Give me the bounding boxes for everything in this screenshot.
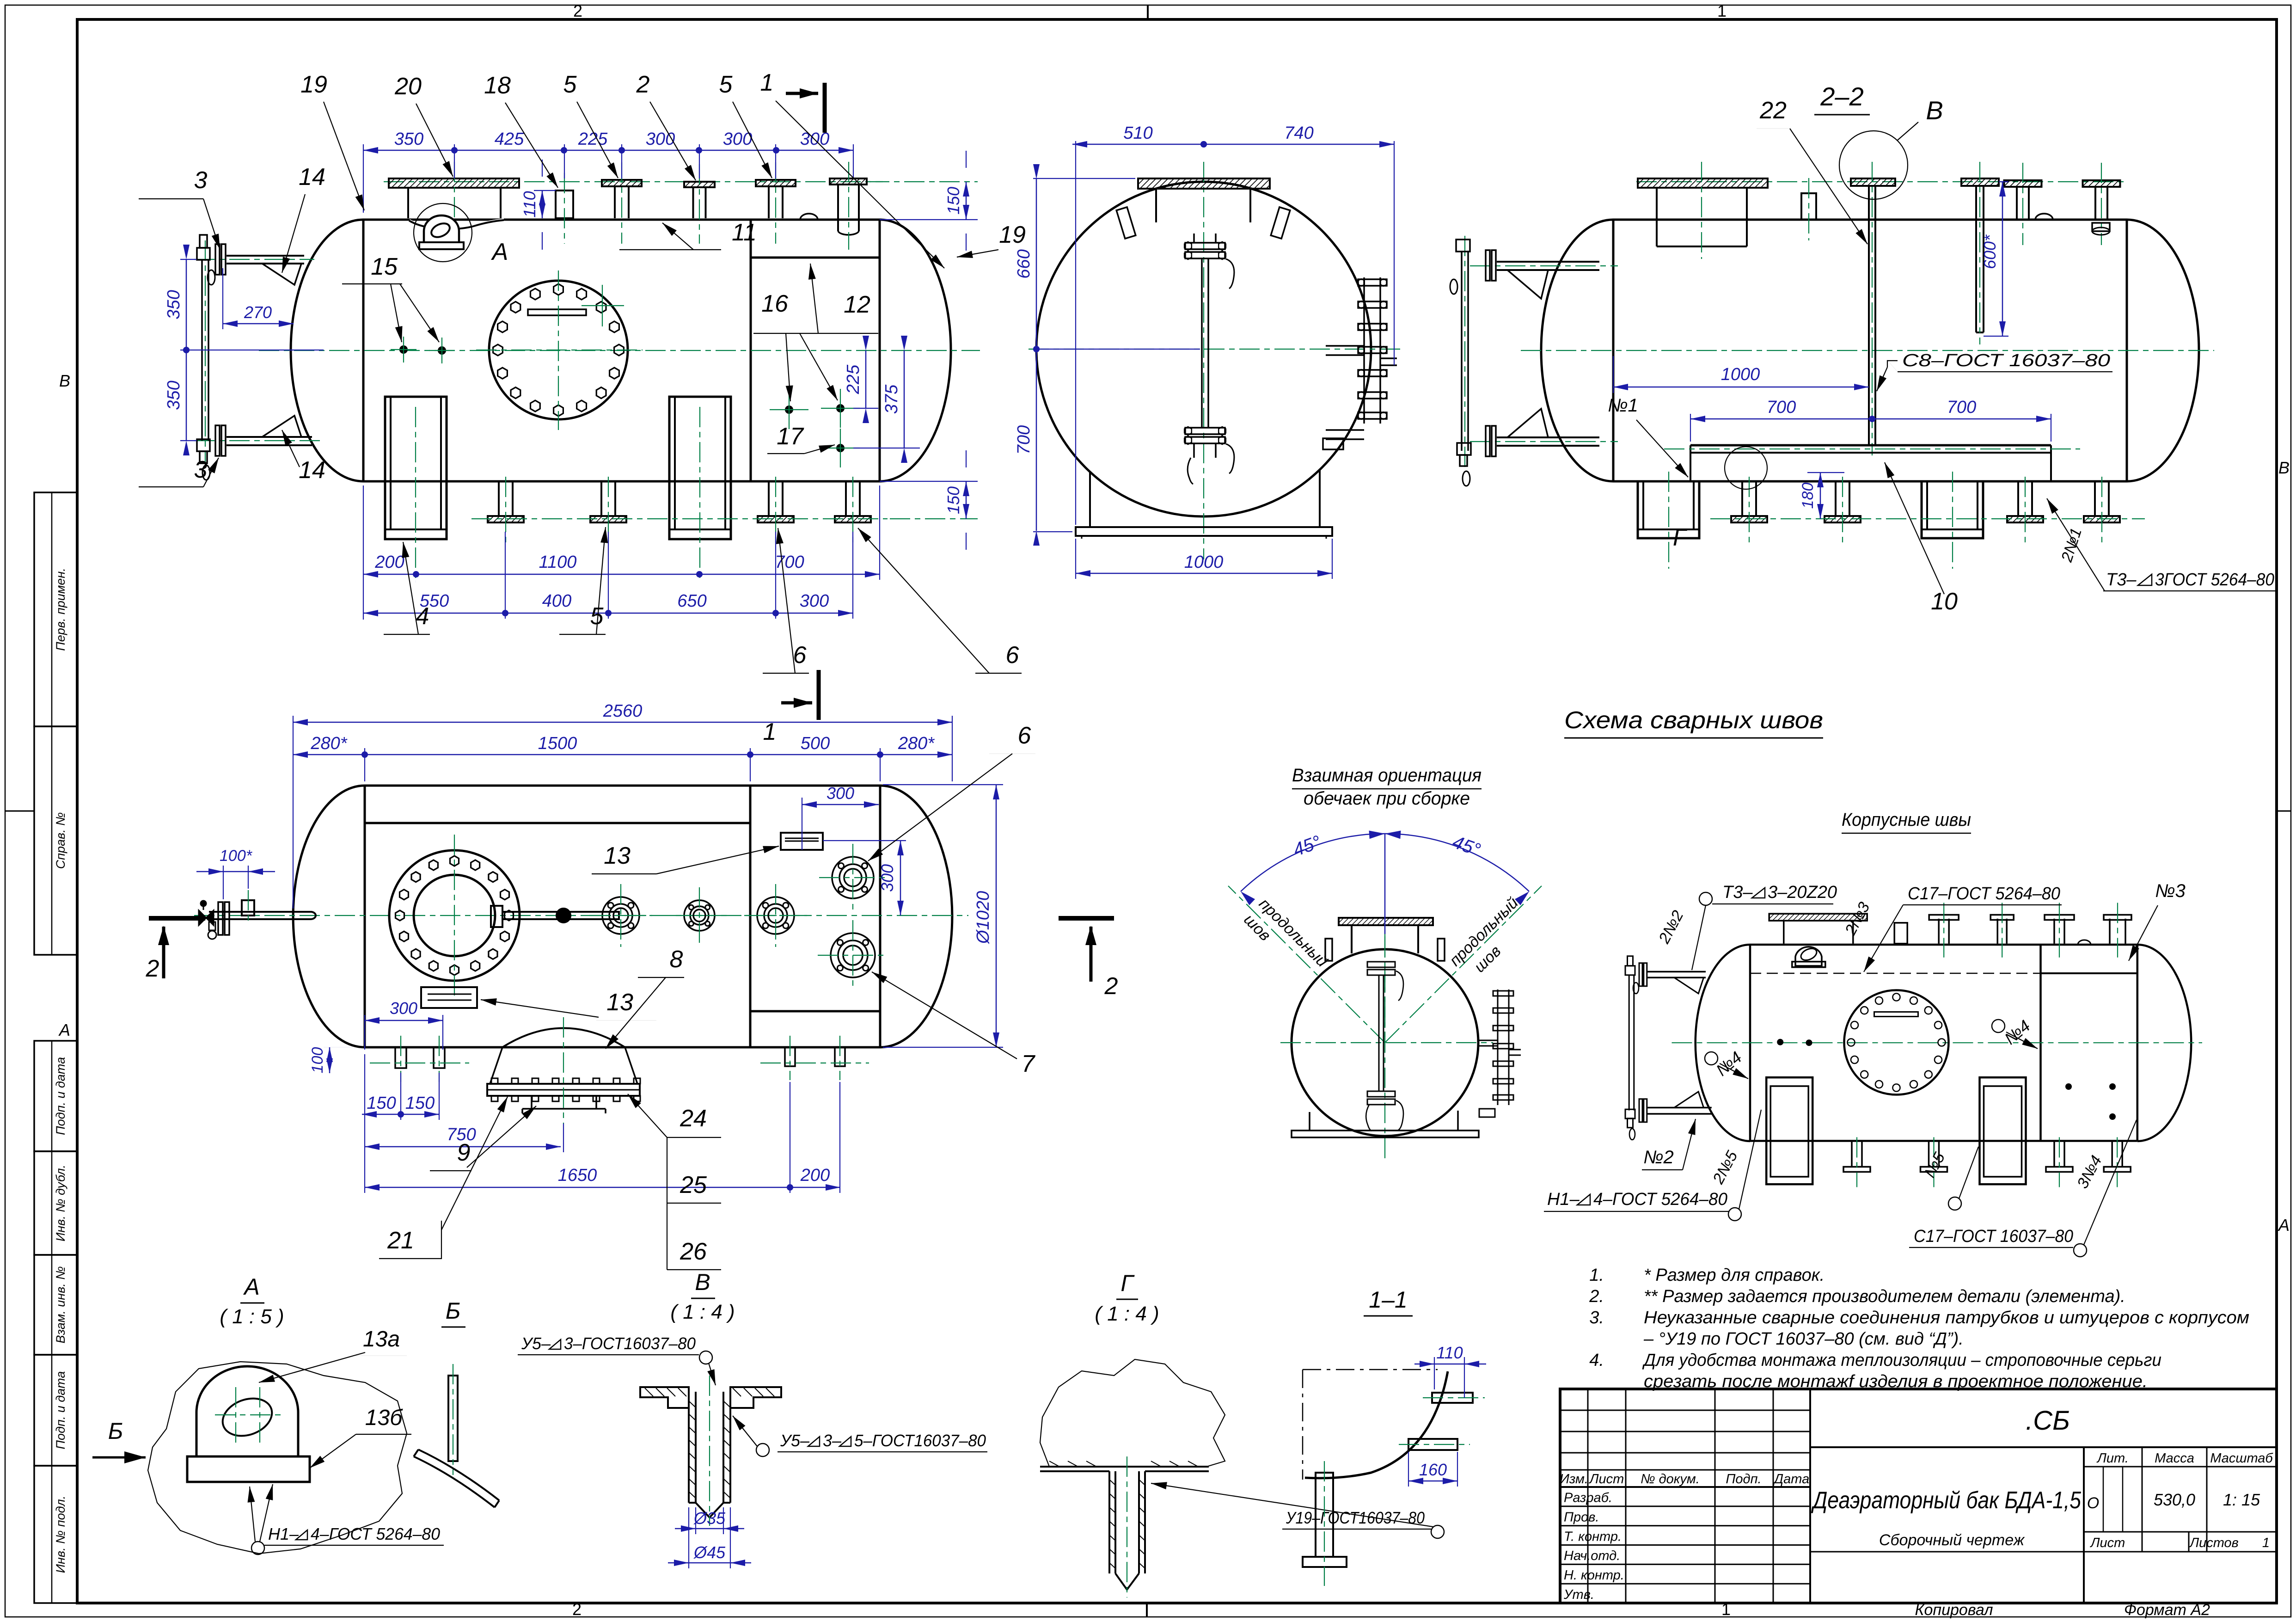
dim 2560	[293, 716, 294, 909]
bottom stubs right pair	[785, 1047, 795, 1066]
svg-text:3.: 3.	[1589, 1308, 1604, 1327]
gussets 2-2	[1507, 270, 1548, 299]
svg-text:Т3–: Т3–	[2106, 570, 2137, 590]
central pipe	[1201, 258, 1203, 428]
detail 1-1 pipe with flange	[1316, 1473, 1333, 1557]
dim chain bottom row1 200 1100 700	[363, 485, 364, 620]
svg-text:1000: 1000	[1184, 553, 1224, 572]
svg-text:14: 14	[299, 457, 325, 484]
legs 2-2	[1638, 481, 1699, 538]
dim 150 bottom right	[880, 481, 978, 482]
scheme right compartment dots	[2065, 1083, 2072, 1090]
svg-text:24: 24	[680, 1105, 707, 1132]
saddle bracket	[531, 1096, 533, 1109]
dim chain bottom row2 550 400 650 300	[363, 613, 853, 614]
title block	[1560, 1389, 2277, 1603]
dim D1020	[883, 784, 1003, 785]
svg-text:Листов: Листов	[2189, 1536, 2239, 1550]
scheme bottom nozzles	[1851, 1141, 1853, 1167]
dim 150 150	[400, 1073, 401, 1120]
dims 350 350 left	[180, 259, 196, 260]
svg-text:1000: 1000	[1721, 365, 1760, 384]
svg-text:2.: 2.	[1589, 1287, 1604, 1306]
svg-text:2: 2	[573, 1, 582, 20]
left valve item 3 plan	[209, 911, 311, 913]
flange 2 plan	[684, 900, 715, 931]
svg-text:3–: 3–	[823, 1431, 842, 1450]
flanged nozzle 2-2 a	[2004, 180, 2042, 187]
shell body plan	[365, 785, 880, 787]
svg-text:3: 3	[194, 167, 208, 194]
svg-text:6: 6	[1006, 642, 1019, 669]
detail V dims	[695, 1507, 696, 1534]
svg-text:С8–ГОСТ 16037–80: С8–ГОСТ 16037–80	[1902, 351, 2110, 370]
svg-text:У19–ГОСТ16037–80: У19–ГОСТ16037–80	[1286, 1508, 1425, 1527]
svg-text:13: 13	[604, 842, 631, 869]
internal line right section	[750, 1010, 880, 1013]
scheme manhole	[1844, 990, 1949, 1095]
main axis centerline	[259, 350, 980, 351]
svg-text:* Размер для справок.: * Размер для справок.	[1644, 1266, 1825, 1285]
detail G pipe	[1108, 1471, 1110, 1573]
shell body	[363, 219, 880, 221]
svg-text:Взам. инв. №: Взам. инв. №	[54, 1266, 67, 1344]
svg-text:13б: 13б	[365, 1406, 403, 1430]
bottom nozzles	[498, 481, 500, 516]
svg-text:6: 6	[793, 642, 807, 669]
left attribute column	[34, 492, 77, 726]
svg-text:300: 300	[390, 999, 417, 1018]
dim 180	[1820, 473, 1821, 519]
level gauge assembly left	[227, 255, 304, 257]
svg-text:В: В	[695, 1269, 710, 1295]
svg-text:150: 150	[405, 1094, 435, 1113]
svg-text:( 1 : 5 ): ( 1 : 5 )	[220, 1305, 284, 1328]
svg-text:1.: 1.	[1589, 1266, 1604, 1285]
section mark 1-1 bottom	[817, 670, 821, 720]
svg-text:110: 110	[520, 191, 539, 217]
svg-text:( 1 : 4 ): ( 1 : 4 )	[1095, 1303, 1159, 1325]
svg-text:Подп. и дата: Подп. и дата	[54, 1057, 67, 1135]
dim 110 detail	[1434, 1357, 1435, 1389]
svg-text:2: 2	[572, 1600, 582, 1619]
hole near slot	[582, 305, 624, 306]
svg-text:2560: 2560	[603, 701, 643, 721]
stub pipes to bank	[1326, 345, 1364, 347]
svg-text:100: 100	[309, 1047, 326, 1074]
svg-text:700: 700	[775, 553, 804, 572]
gusset upper	[262, 264, 301, 285]
dims 700 700	[1690, 414, 1691, 442]
svg-text:Лит.: Лит.	[2096, 1451, 2129, 1466]
compartment divider (seam)	[750, 220, 752, 481]
svg-text:С17–ГОСТ 16037–80: С17–ГОСТ 16037–80	[1914, 1227, 2073, 1246]
svg-text:21: 21	[387, 1227, 414, 1254]
bottom stubs left pair	[395, 1047, 406, 1068]
svg-text:20: 20	[394, 73, 422, 100]
svg-text:1100: 1100	[539, 553, 577, 572]
scheme nozzles top	[1894, 923, 1907, 944]
dim 600*	[1984, 182, 2008, 186]
svg-text:4–ГОСТ 5264–80: 4–ГОСТ 5264–80	[311, 1524, 440, 1543]
svg-text:160: 160	[1419, 1460, 1447, 1479]
svg-text:4: 4	[416, 603, 429, 630]
svg-text:Г: Г	[1120, 1270, 1135, 1296]
flange 5a plan	[602, 897, 639, 934]
svg-text:В: В	[2278, 458, 2290, 477]
svg-text:150: 150	[944, 187, 963, 215]
svg-text:№ докум.: № докум.	[1641, 1472, 1700, 1487]
svg-text:Подп. и дата: Подп. и дата	[54, 1371, 67, 1449]
svg-text:№3: №3	[2155, 881, 2186, 901]
svg-text:№1: №1	[1608, 395, 1638, 416]
svg-text:13а: 13а	[363, 1327, 400, 1352]
flange 7 plan	[831, 933, 875, 977]
svg-text:7: 7	[1022, 1051, 1036, 1077]
detail B shell arc	[414, 1456, 495, 1507]
gusset lower	[262, 416, 301, 437]
vent bump	[800, 214, 818, 220]
svg-text:Т. контр.: Т. контр.	[1564, 1529, 1622, 1544]
svg-text:В: В	[1926, 96, 1943, 125]
nozzle 1 (C8 pipe)	[830, 178, 867, 184]
central pipe orientation	[1367, 962, 1395, 967]
bottom nozzles 2-2	[1741, 481, 1743, 516]
nozzle 5b	[756, 180, 796, 186]
nozzle 20 flange (manhole cover)	[389, 178, 519, 188]
dim 300 vertical right	[823, 840, 906, 841]
svg-text:№2: №2	[1643, 1147, 1674, 1167]
svg-text:Неуказанные сварные соединения: Неуказанные сварные соединения патрубков…	[1644, 1308, 2249, 1327]
svg-text:5: 5	[719, 71, 733, 98]
bottom saddle item 8	[502, 1028, 625, 1048]
right flange bank	[1363, 277, 1365, 424]
svg-text:Н. контр.: Н. контр.	[1564, 1568, 1624, 1583]
svg-text:А: А	[58, 1020, 70, 1039]
svg-text:Корпусные швы: Корпусные швы	[1842, 810, 1971, 830]
section 2 mark left	[149, 916, 205, 921]
detail B plate	[448, 1376, 458, 1461]
svg-text:400: 400	[542, 591, 571, 611]
detail G cloud	[1040, 1359, 1225, 1467]
svg-text:( 1 : 4 ): ( 1 : 4 )	[670, 1301, 735, 1323]
top flange orientation view	[1339, 918, 1433, 925]
detail A lug	[196, 1366, 298, 1456]
flanged nozzle 2-2 b	[2083, 180, 2120, 187]
svg-text:Н1–: Н1–	[1547, 1190, 1580, 1209]
svg-text:Нач.отд.: Нач.отд.	[1564, 1548, 1620, 1563]
callout B circle	[1839, 131, 1908, 199]
nozzle 18 stub	[556, 190, 573, 218]
svg-text:100*: 100*	[220, 847, 253, 865]
VIEW 2: end elevation (circle)	[1036, 182, 1371, 516]
weld label T3-3-20Z20	[1699, 892, 1712, 905]
svg-text:Ø1020: Ø1020	[974, 891, 993, 945]
scheme legs	[1766, 1077, 1812, 1184]
svg-text:19: 19	[999, 221, 1026, 248]
dim 100*	[223, 866, 224, 899]
svg-text:3: 3	[194, 456, 208, 483]
svg-text:150: 150	[944, 486, 963, 514]
pipe 22 with flange	[1851, 178, 1895, 186]
label U5-3-5 GOST	[756, 1444, 769, 1456]
svg-text:150: 150	[367, 1094, 396, 1113]
right head plan	[880, 786, 952, 1047]
item 13 lug right	[781, 833, 823, 850]
svg-text:180: 180	[1799, 483, 1817, 509]
diagonal centerlines 45	[1384, 936, 1385, 1043]
svg-text:225: 225	[844, 364, 863, 394]
scheme big flange and eye	[1769, 914, 1867, 921]
svg-text:А: А	[243, 1274, 259, 1300]
weld labels N4	[1705, 1052, 1718, 1065]
svg-text:Лист: Лист	[2090, 1536, 2125, 1550]
detail A arrow B	[92, 1456, 146, 1459]
scheme seam divider	[2039, 945, 2042, 1141]
svg-text:3–ГОСТ16037–80: 3–ГОСТ16037–80	[564, 1334, 696, 1353]
svg-text:510: 510	[1123, 123, 1152, 143]
svg-text:Перв. примен.: Перв. примен.	[54, 568, 67, 651]
lifting eye (detail A callout)	[424, 215, 459, 248]
dim 160 detail	[1408, 1452, 1409, 1487]
svg-text:Ø45: Ø45	[693, 1543, 726, 1562]
scheme tank shell	[1750, 944, 2137, 946]
svg-text:425: 425	[495, 129, 524, 149]
svg-text:700: 700	[1947, 398, 1976, 417]
safety device bottom	[1185, 428, 1225, 434]
section mark 1-1 top	[823, 83, 827, 133]
flange 5b plan	[757, 897, 794, 934]
svg-text:225: 225	[578, 129, 608, 149]
right bank orientation	[1497, 989, 1499, 1105]
svg-text:Г: Г	[1673, 524, 1688, 551]
svg-text:4–ГОСТ 5264–80: 4–ГОСТ 5264–80	[1593, 1190, 1727, 1209]
top flange	[1138, 178, 1270, 189]
top elevation centerline	[384, 181, 883, 182]
detail 1-1 nozzle stubs	[1432, 1393, 1473, 1403]
svg-text:350: 350	[164, 381, 184, 410]
svg-text:2–2: 2–2	[1820, 82, 1863, 111]
detail V pipe	[688, 1387, 690, 1503]
dim 660 700	[1033, 178, 1135, 179]
manhole plan (item 20)	[389, 850, 520, 981]
item 13 lug left	[421, 987, 477, 1008]
support stand	[1089, 472, 1091, 527]
scheme holes	[1777, 1039, 1783, 1045]
svg-text:15: 15	[371, 253, 398, 280]
svg-text:110: 110	[1436, 1343, 1463, 1362]
svg-text:обечаек при сборке: обечаек при сборке	[1304, 788, 1470, 809]
svg-text:200: 200	[800, 1166, 830, 1185]
svg-text:1650: 1650	[558, 1166, 597, 1185]
svg-text:Схема сварных швов: Схема сварных швов	[1564, 707, 1823, 734]
circle Г callout	[1725, 447, 1767, 489]
scheme longitudinal seam dashed	[1750, 973, 2041, 974]
holes items 16 17	[785, 405, 793, 414]
svg-text:Сборочный чертеж: Сборочный чертеж	[1879, 1531, 2025, 1549]
svg-text:Т3–: Т3–	[1722, 883, 1753, 902]
svg-text:9: 9	[457, 1139, 471, 1166]
svg-text:Ø35: Ø35	[693, 1509, 726, 1528]
dim 280 1500 500 280	[364, 748, 365, 781]
dim 1650 200	[790, 1082, 790, 1193]
svg-text:С17–ГОСТ 5264–80: С17–ГОСТ 5264–80	[1908, 884, 2060, 903]
nozzle 2	[684, 182, 715, 187]
svg-text:** Размер задается производит: ** Размер задается производителем детали…	[1644, 1287, 2125, 1306]
dim 300 top right	[802, 798, 802, 850]
svg-text:Лист: Лист	[1589, 1472, 1624, 1487]
svg-text:12: 12	[844, 291, 870, 318]
holes item 15	[399, 345, 408, 354]
svg-text:2: 2	[636, 71, 650, 98]
svg-text:Масса: Масса	[2155, 1451, 2194, 1466]
overflow nozzle 600*	[1961, 178, 1999, 186]
small hole on axis	[557, 909, 570, 922]
svg-text:740: 740	[1284, 123, 1313, 143]
dim 1000 2-2	[1613, 356, 1614, 393]
flange 6 plan	[832, 857, 874, 898]
right elliptical head	[880, 220, 951, 481]
svg-text:8: 8	[670, 946, 683, 973]
svg-text:В: В	[59, 371, 70, 390]
svg-text:1: 1	[760, 69, 774, 96]
scheme tank right head	[2137, 945, 2191, 1141]
level gauge assembly 2-2	[1497, 261, 1599, 263]
weld label N5	[1948, 1197, 1961, 1210]
bottom right stub	[1323, 438, 1343, 449]
left head plan	[293, 786, 365, 1047]
dim 750	[563, 1124, 564, 1152]
svg-text:1: 1	[1717, 1, 1727, 20]
scheme gauge bracket	[1647, 971, 1706, 973]
svg-text:19: 19	[300, 71, 327, 98]
support leg 2	[669, 397, 731, 539]
svg-text:– °У19 по ГОСТ 16037–80 (см.: – °У19 по ГОСТ 16037–80 (см. вид “Д”).	[1643, 1329, 1964, 1349]
stand orientation	[1309, 1112, 1310, 1130]
svg-text:530,0: 530,0	[2154, 1490, 2195, 1509]
svg-text:700: 700	[1767, 398, 1796, 417]
svg-text:300: 300	[827, 784, 854, 803]
svg-text:200: 200	[374, 553, 404, 572]
safety device top (flanged pair)	[1185, 243, 1225, 249]
svg-text:Утв.: Утв.	[1563, 1587, 1594, 1602]
svg-text:11: 11	[732, 219, 757, 246]
shell dip under eye	[409, 220, 504, 229]
stub box plan	[242, 900, 254, 915]
svg-text:2: 2	[146, 955, 159, 982]
svg-text:660: 660	[1014, 249, 1034, 278]
svg-text:270: 270	[244, 303, 272, 322]
svg-text:300: 300	[646, 129, 675, 149]
svg-text:Подп.: Подп.	[1726, 1472, 1761, 1487]
svg-text:.СБ: .СБ	[2026, 1406, 2070, 1436]
dim 110	[534, 190, 556, 191]
svg-text:350: 350	[394, 129, 423, 149]
tray item 10	[1690, 444, 2051, 447]
svg-text:Изм.: Изм.	[1560, 1472, 1588, 1487]
support leg 1	[385, 397, 447, 539]
manhole with bolts	[489, 281, 628, 419]
side stubs top	[1116, 207, 1136, 239]
dims 225 375	[853, 408, 878, 409]
compartment internal shelf	[751, 257, 880, 259]
shell body 2-2	[1613, 219, 2127, 221]
svg-text:1–1: 1–1	[1369, 1287, 1407, 1313]
svg-text:16: 16	[761, 290, 788, 317]
svg-text:25: 25	[680, 1172, 707, 1198]
svg-text:2: 2	[1104, 973, 1118, 1000]
svg-text:О: О	[2087, 1494, 2099, 1512]
svg-text:600*: 600*	[1980, 234, 1999, 269]
svg-text:Пров.: Пров.	[1564, 1510, 1599, 1525]
dim 510 740	[1075, 141, 1076, 525]
svg-text:6: 6	[1018, 722, 1031, 749]
svg-text:5–ГОСТ16037–80: 5–ГОСТ16037–80	[854, 1431, 986, 1450]
stub nozzle 2-2	[1801, 193, 1816, 220]
svg-text:срезать после монтажf изделия: срезать после монтажf изделия в проектно…	[1644, 1372, 2148, 1391]
svg-text:3–20Z20: 3–20Z20	[1768, 883, 1837, 902]
left head 2-2	[1541, 220, 1613, 481]
dim 1000	[1075, 539, 1076, 579]
svg-text:14: 14	[299, 164, 325, 190]
svg-text:Б: Б	[446, 1298, 461, 1324]
svg-text:700: 700	[1014, 425, 1034, 455]
svg-text:3ГОСТ 5264–80: 3ГОСТ 5264–80	[2155, 570, 2274, 590]
svg-text:Деаэраторный бак БДА-1,5: Деаэраторный бак БДА-1,5	[1811, 1487, 2082, 1514]
svg-text:Взаимная ориентация: Взаимная ориентация	[1292, 765, 1482, 786]
svg-text:1: 15: 1: 15	[2223, 1490, 2260, 1509]
manhole T-handle	[491, 906, 502, 927]
detail G shell plate	[1040, 1466, 1209, 1468]
dim 300 left below	[442, 1026, 443, 1050]
svg-text:Дата: Дата	[1773, 1472, 1810, 1487]
svg-text:375: 375	[882, 384, 901, 414]
section 2 mark right	[1059, 916, 1114, 921]
detail V flange plate	[640, 1387, 689, 1408]
left elliptical head	[291, 220, 363, 481]
cap under shell	[2092, 223, 2110, 231]
svg-text:5: 5	[563, 71, 577, 98]
svg-text:Инв. № дубл.: Инв. № дубл.	[54, 1165, 67, 1241]
svg-text:Справ. №: Справ. №	[54, 812, 67, 869]
svg-text:А: А	[2278, 1216, 2290, 1235]
saddle flange strip	[487, 1084, 640, 1096]
detail A cloud	[148, 1362, 407, 1554]
svg-text:Масштаб: Масштаб	[2210, 1451, 2273, 1466]
zone ticks	[1147, 5, 1149, 19]
svg-text:10: 10	[1931, 588, 1958, 615]
svg-text:300: 300	[723, 129, 752, 149]
internal line left section	[365, 822, 750, 824]
svg-text:300: 300	[878, 864, 897, 892]
scheme tank left head	[1696, 945, 1750, 1141]
vent bump 2-2	[2035, 214, 2053, 220]
svg-text:17: 17	[777, 423, 804, 450]
svg-text:Инв. № подл.: Инв. № подл.	[54, 1496, 67, 1573]
svg-text:1: 1	[2262, 1536, 2270, 1550]
svg-text:Для удобства монтажа теплоизол: Для удобства монтажа теплоизоляции – стр…	[1642, 1351, 2161, 1370]
svg-text:18: 18	[484, 72, 511, 99]
svg-text:500: 500	[801, 734, 830, 753]
side stubs orientation	[1325, 939, 1332, 961]
svg-text:У5–: У5–	[521, 1334, 551, 1353]
detail 1-1 centerlines	[1303, 1369, 1438, 1370]
svg-text:350: 350	[164, 290, 184, 319]
svg-text:280*: 280*	[310, 734, 347, 753]
dim 150 top right	[869, 181, 978, 182]
svg-text:22: 22	[1759, 97, 1787, 124]
svg-text:4.: 4.	[1589, 1351, 1604, 1370]
